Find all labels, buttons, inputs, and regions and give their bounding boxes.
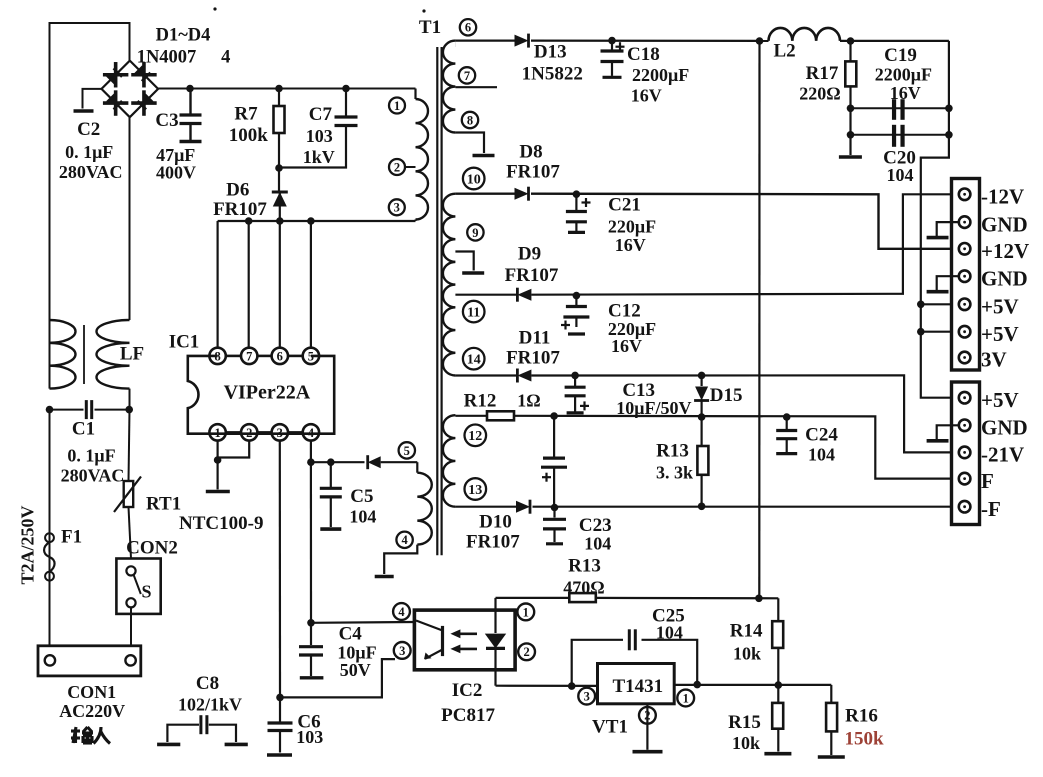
svg-text:R13: R13 [568, 556, 601, 577]
svg-text:102/1kV: 102/1kV [178, 695, 242, 715]
svg-text:PC817: PC817 [441, 705, 495, 726]
svg-text:150k: 150k [844, 729, 884, 750]
svg-text:3: 3 [399, 644, 405, 658]
svg-text:3V: 3V [981, 348, 1007, 372]
svg-text:104: 104 [349, 506, 376, 526]
svg-text:220μF: 220μF [608, 217, 656, 237]
svg-text:FR107: FR107 [505, 265, 559, 286]
svg-text:1N5822: 1N5822 [522, 63, 583, 84]
svg-text:L2: L2 [774, 41, 796, 62]
svg-text:FR107: FR107 [213, 199, 267, 220]
svg-text:R12: R12 [464, 391, 497, 412]
svg-text:4: 4 [221, 47, 230, 67]
svg-text:0. 1μF: 0. 1μF [65, 142, 113, 162]
svg-text:50V: 50V [340, 660, 371, 680]
svg-text:104: 104 [887, 165, 914, 185]
svg-text:104: 104 [656, 623, 683, 643]
svg-text:R14: R14 [730, 620, 763, 641]
svg-text:10: 10 [467, 172, 481, 187]
svg-text:D8: D8 [519, 142, 542, 163]
svg-text:8: 8 [214, 349, 220, 363]
svg-text:R16: R16 [845, 706, 878, 727]
svg-text:R13: R13 [656, 441, 689, 462]
svg-text:C1: C1 [72, 419, 95, 440]
svg-text:7: 7 [464, 69, 470, 83]
svg-text:14: 14 [467, 353, 481, 368]
svg-text:RT1: RT1 [146, 494, 181, 515]
svg-text:C7: C7 [309, 104, 333, 125]
svg-text:-12V: -12V [981, 185, 1024, 209]
svg-text:280VAC: 280VAC [59, 162, 123, 182]
svg-text:C2: C2 [77, 119, 100, 140]
svg-text:LF: LF [120, 344, 144, 365]
svg-text:CON1: CON1 [67, 682, 116, 702]
svg-text:NTC100-9: NTC100-9 [179, 513, 263, 534]
svg-text:220Ω: 220Ω [799, 84, 840, 104]
svg-text:104: 104 [584, 533, 611, 553]
svg-text:4: 4 [308, 426, 315, 440]
svg-text:FR107: FR107 [506, 348, 560, 369]
svg-text:C5: C5 [350, 486, 373, 507]
svg-text:T2A/250V: T2A/250V [18, 505, 38, 584]
svg-text:FR107: FR107 [466, 532, 520, 553]
svg-text:16V: 16V [615, 235, 646, 255]
svg-text:400V: 400V [156, 163, 196, 183]
svg-text:-21V: -21V [981, 443, 1024, 467]
svg-text:D10: D10 [479, 512, 512, 533]
svg-text:R7: R7 [234, 103, 258, 124]
svg-text:3: 3 [394, 201, 400, 215]
svg-text:11: 11 [467, 306, 480, 321]
svg-text:2: 2 [523, 645, 529, 659]
svg-text:7: 7 [246, 349, 252, 363]
svg-text:470Ω: 470Ω [563, 577, 604, 597]
svg-text:0. 1μF: 0. 1μF [67, 446, 115, 466]
svg-text:10k: 10k [732, 733, 760, 753]
svg-text:104: 104 [808, 445, 835, 465]
svg-text:C3: C3 [155, 110, 178, 131]
svg-text:10k: 10k [733, 643, 761, 663]
svg-text:3. 3k: 3. 3k [656, 463, 693, 483]
svg-text:AC220V: AC220V [59, 701, 125, 721]
svg-text:F1: F1 [61, 527, 82, 548]
svg-text:+5V: +5V [981, 322, 1019, 346]
svg-text:GND: GND [981, 266, 1028, 290]
svg-text:D13: D13 [534, 41, 567, 62]
svg-text:4: 4 [401, 533, 408, 547]
svg-text:FR107: FR107 [506, 162, 560, 183]
svg-text:C24: C24 [805, 425, 838, 446]
svg-text:1kV: 1kV [303, 147, 335, 167]
svg-text:R15: R15 [728, 712, 761, 733]
svg-text:1: 1 [683, 691, 689, 705]
svg-text:13: 13 [468, 483, 482, 498]
svg-text:16V: 16V [631, 85, 662, 105]
svg-text:2200μF: 2200μF [875, 65, 932, 85]
svg-text:103: 103 [306, 126, 333, 146]
svg-text:IC2: IC2 [452, 680, 483, 701]
svg-text:+12V: +12V [981, 239, 1029, 263]
svg-text:16V: 16V [611, 336, 642, 356]
svg-text:D1~D4: D1~D4 [156, 25, 211, 45]
svg-text:C18: C18 [627, 44, 660, 65]
svg-text:D9: D9 [518, 244, 541, 265]
svg-text:100k: 100k [229, 125, 269, 146]
svg-text:2200μF: 2200μF [632, 65, 689, 85]
svg-text:280VAC: 280VAC [61, 466, 125, 486]
svg-text:10μF/50V: 10μF/50V [616, 398, 691, 418]
svg-text:1: 1 [394, 99, 400, 113]
svg-text:5: 5 [404, 444, 410, 458]
svg-text:D11: D11 [519, 328, 551, 349]
svg-text:1N4007: 1N4007 [137, 47, 197, 67]
svg-text:4: 4 [398, 605, 405, 619]
svg-text:3: 3 [584, 689, 590, 703]
svg-text:5: 5 [308, 349, 314, 363]
svg-text:D15: D15 [710, 385, 743, 406]
svg-text:S: S [141, 582, 151, 602]
svg-text:T1431: T1431 [612, 676, 663, 697]
svg-text:8: 8 [467, 113, 473, 127]
svg-text:C8: C8 [196, 673, 219, 694]
svg-text:VT1: VT1 [592, 717, 628, 738]
svg-text:GND: GND [981, 212, 1028, 236]
svg-text:1: 1 [523, 605, 529, 619]
svg-text:R17: R17 [806, 63, 839, 84]
svg-text:+5V: +5V [981, 388, 1019, 412]
svg-text:C21: C21 [608, 195, 641, 216]
svg-text:D6: D6 [226, 179, 249, 200]
svg-text:GND: GND [981, 416, 1028, 440]
svg-text:CON2: CON2 [126, 538, 178, 559]
svg-text:2: 2 [246, 426, 252, 440]
svg-text:F: F [981, 469, 994, 493]
svg-text:VIPer22A: VIPer22A [224, 382, 311, 404]
svg-text:2: 2 [394, 160, 400, 174]
svg-text:1Ω: 1Ω [517, 391, 540, 411]
svg-text:+5V: +5V [981, 295, 1019, 319]
svg-text:16V: 16V [890, 83, 921, 103]
svg-text:1: 1 [214, 426, 220, 440]
svg-text:12: 12 [468, 429, 482, 444]
svg-text:3: 3 [277, 426, 283, 440]
svg-text:-F: -F [981, 497, 1001, 521]
svg-text:IC1: IC1 [169, 332, 200, 353]
svg-text:T1: T1 [419, 17, 441, 38]
svg-text:9: 9 [472, 226, 478, 240]
svg-text:C19: C19 [884, 45, 917, 66]
svg-text:103: 103 [296, 727, 323, 747]
svg-text:6: 6 [465, 21, 471, 35]
svg-text:6: 6 [277, 349, 283, 363]
